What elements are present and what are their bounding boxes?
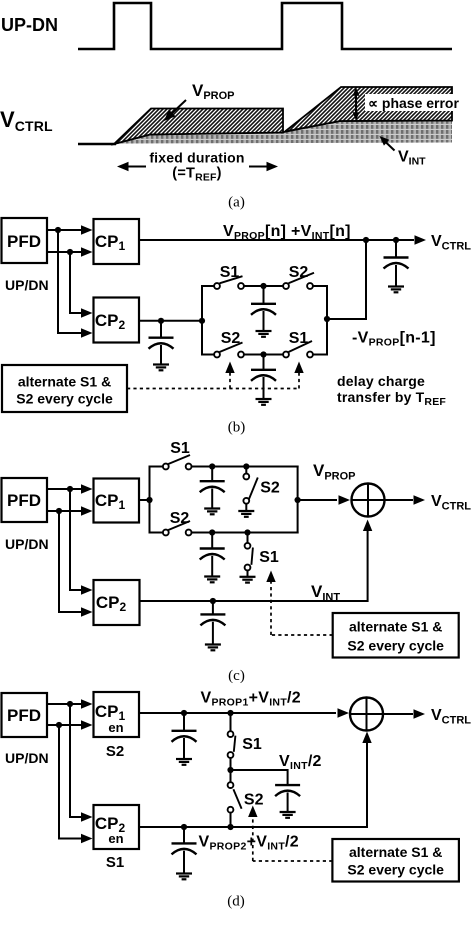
wire dashed control c [271, 581, 333, 635]
node junction top cap c [209, 463, 215, 469]
svg-text:(a): (a) [228, 195, 245, 211]
block alternate note d [332, 839, 459, 882]
arrow into summer bottom c [363, 520, 372, 532]
capacitor CP1 d [172, 713, 197, 759]
svg-text:en: en [108, 831, 123, 846]
node junction left rail c [146, 497, 152, 503]
capacitor CP2 d [172, 827, 197, 873]
svg-text:S1: S1 [259, 549, 279, 566]
arrow control d [248, 806, 257, 818]
svg-text:alternate S1 &: alternate S1 & [18, 374, 111, 390]
wire to CP2 lower input d [59, 725, 93, 843]
switch S1 bottom-right [283, 341, 313, 357]
node junction top wire c [67, 486, 73, 492]
wire top rail segments c [149, 466, 299, 468]
capacitor loop filter [384, 240, 409, 286]
ground CP2 cap [153, 365, 169, 371]
wire PFD to CP1 lower with arrow [47, 247, 93, 256]
svg-text:S1: S1 [289, 330, 309, 347]
node junction bottom cap c [209, 529, 215, 535]
svg-text:VPROP[n] +VINT[n]: VPROP[n] +VINT[n] [223, 223, 351, 242]
ground S1 vertical c [240, 577, 256, 583]
wire to CP2 upper input [70, 252, 93, 318]
wire summer output d [383, 709, 425, 718]
switch S2 vertical d [228, 770, 242, 827]
svg-text:S2 every cycle: S2 every cycle [347, 638, 444, 654]
capacitor CP2 integrator c [200, 601, 225, 644]
wire network to summer with arrow [298, 495, 350, 504]
capacitor CP2 integrator [149, 321, 174, 364]
block CP1 [94, 219, 140, 264]
svg-text:fixed duration: fixed duration [149, 150, 244, 166]
switch S1 top-left [214, 276, 244, 289]
svg-text:VPROP2+VINT/2: VPROP2+VINT/2 [199, 834, 300, 853]
UP-DN waveform [78, 3, 452, 49]
svg-text:∝ phase error: ∝ phase error [368, 95, 459, 111]
svg-text:(=TREF): (=TREF) [172, 166, 221, 184]
block alternate S1 S2 note [2, 365, 127, 412]
wire CP2 output [139, 320, 202, 322]
svg-text:CP2: CP2 [95, 311, 126, 332]
summer c [352, 484, 385, 517]
block CP1 en d [94, 692, 140, 737]
svg-text:S1: S1 [170, 440, 190, 457]
node junction top cap [260, 283, 266, 289]
node junction top wire [55, 227, 61, 233]
node junction S2 vertical c [243, 463, 249, 469]
wire right rail c [297, 466, 299, 534]
svg-text:S2: S2 [260, 480, 280, 497]
svg-text:transfer by TREF: transfer by TREF [337, 389, 446, 408]
arrow control S2 [225, 362, 234, 374]
svg-text:UP/DN: UP/DN [5, 277, 49, 293]
wire dashed control [127, 371, 299, 389]
wire PFD to CP1 lower d [47, 720, 93, 729]
wire left rail [201, 285, 203, 356]
node junction CP1 cap d [181, 710, 187, 716]
svg-text:CP1: CP1 [95, 232, 126, 253]
svg-text:S2: S2 [289, 264, 309, 281]
node VPROP shaded region cycle1 [114, 109, 283, 145]
block CP1 c [94, 479, 140, 523]
switch S2 top-right [283, 273, 314, 289]
svg-text:S1: S1 [106, 854, 124, 871]
node junction S2 bottom d [227, 824, 233, 830]
ground S2 vertical c [238, 511, 254, 517]
svg-text:S2 every cycle: S2 every cycle [16, 391, 113, 407]
ground top cap c [204, 509, 220, 515]
wire to CP2 lower input c [59, 511, 93, 617]
svg-text:VINT: VINT [311, 582, 340, 604]
svg-text:en: en [108, 720, 123, 735]
node junction cap [393, 237, 399, 243]
wire feedback vertical [327, 240, 366, 319]
svg-text:alternate S1 &: alternate S1 & [349, 619, 442, 635]
svg-text:VCTRL: VCTRL [0, 107, 53, 134]
wire top rail segments [201, 285, 328, 287]
switch S1 vertical c [245, 533, 253, 577]
node junction CP2 cap c [210, 598, 216, 604]
node junction S1 vertical c [244, 529, 250, 535]
capacitor sample top [251, 286, 276, 331]
node junction mid d [227, 767, 233, 773]
svg-text:VCTRL: VCTRL [431, 707, 471, 727]
wire to CP2 lower input [58, 230, 93, 338]
svg-text:S1: S1 [220, 264, 240, 281]
block PFD [2, 218, 48, 263]
svg-text:S1: S1 [242, 736, 262, 753]
label delay charge transfer [337, 373, 446, 408]
node junction bottom wire [67, 249, 73, 255]
arrow control S1 [294, 362, 303, 374]
wire to CP2 upper input d [70, 704, 93, 822]
ground top sample cap [256, 331, 272, 337]
svg-text:S2: S2 [170, 510, 190, 527]
switch S2 bottom-left [214, 343, 244, 358]
summer d [350, 698, 383, 731]
block PFD c [2, 478, 48, 522]
node junction left rail [199, 318, 205, 324]
svg-text:VINT: VINT [398, 149, 426, 168]
wire CP1 to network [139, 499, 150, 501]
label fixed duration with arrows [117, 150, 278, 184]
wire CP2 output c [140, 531, 368, 601]
capacitor top c [200, 467, 225, 509]
svg-text:CP2: CP2 [96, 593, 127, 614]
svg-text:S2: S2 [221, 330, 241, 347]
svg-text:PFD: PFD [7, 706, 41, 725]
svg-text:delay charge: delay charge [337, 373, 425, 389]
svg-text:VPROP: VPROP [192, 81, 235, 102]
label proportional to phase error [365, 94, 467, 111]
wire bottom rail segments c [149, 532, 299, 534]
capacitor VINT2 d [275, 785, 300, 811]
wire bottom rail segments [201, 354, 328, 356]
arrow into summer bottom d [362, 732, 371, 744]
switch S1 top c [163, 455, 192, 469]
svg-text:-VPROP[n-1]: -VPROP[n-1] [352, 330, 436, 349]
svg-text:CP1: CP1 [95, 491, 126, 512]
wire to CP2 upper input c [70, 489, 93, 595]
wire left rail c [149, 466, 151, 534]
block PFD d [2, 693, 48, 737]
svg-text:VCTRL: VCTRL [431, 493, 471, 513]
block alternate note c [333, 613, 459, 658]
svg-text:PFD: PFD [7, 491, 41, 510]
arrow control c [266, 571, 275, 583]
wire to VINT cap d [231, 770, 288, 785]
node junction bottom cap [260, 351, 266, 357]
node VINT shaded region [114, 121, 452, 145]
svg-text:(d): (d) [227, 894, 245, 910]
wire PFD to CP1 upper c [47, 484, 93, 493]
ground VINT2 cap d [280, 812, 296, 818]
svg-text:alternate S1 &: alternate S1 & [349, 844, 442, 860]
svg-text:UP/DN: UP/DN [5, 750, 49, 766]
ground CP2 cap c [205, 645, 221, 651]
ground CP1 cap d [176, 759, 192, 765]
wire CP2 output to summer d [139, 741, 367, 827]
label VPROP with arrow [161, 81, 235, 124]
node VPROP shaded region cycle2 [285, 87, 452, 132]
svg-text:VPROP: VPROP [313, 461, 356, 483]
svg-text:(c): (c) [228, 668, 245, 684]
wire PFD to CP1 lower c [47, 506, 93, 515]
capacitor sample bottom [251, 355, 276, 399]
node junction CP2 cap d [181, 824, 187, 830]
svg-text:VINT/2: VINT/2 [279, 753, 322, 772]
switch S2 vertical c [243, 467, 257, 511]
svg-text:S2: S2 [106, 743, 124, 760]
ground CP2 cap d [176, 874, 192, 880]
block CP2 en d [94, 805, 140, 849]
ground bottom cap c [204, 577, 220, 583]
svg-text:VCTRL: VCTRL [431, 233, 471, 253]
wire baseline VCTRL [78, 143, 116, 146]
node junction right rail c [295, 497, 301, 503]
svg-text:(b): (b) [228, 420, 246, 436]
svg-text:VPROP1+VINT/2: VPROP1+VINT/2 [201, 690, 302, 709]
svg-text:UP-DN: UP-DN [1, 15, 58, 35]
wire CP1 output to VCTRL [139, 235, 426, 244]
node junction switch chain top d [227, 710, 233, 716]
wire PFD to CP1 upper d [47, 699, 93, 708]
svg-text:S2: S2 [244, 792, 264, 809]
svg-text:UP/DN: UP/DN [5, 536, 49, 552]
phase error double arrow [353, 88, 360, 121]
wire summer output c [385, 495, 426, 504]
wire right rail [326, 285, 328, 356]
node junction feedback [363, 237, 369, 243]
block CP2 c [94, 580, 140, 625]
node junction bottom wire d [56, 722, 62, 728]
wire CP1 output to summer d [139, 708, 349, 717]
wire dashed control d [253, 815, 333, 861]
ground bottom sample cap [256, 399, 272, 405]
block CP2 [94, 298, 140, 343]
capacitor bottom c [200, 533, 225, 577]
svg-text:PFD: PFD [7, 232, 41, 251]
node junction CP2 cap [158, 318, 164, 324]
svg-text:S2 every cycle: S2 every cycle [347, 862, 444, 878]
switch S2 bottom c [163, 521, 192, 535]
node junction bottom wire c [56, 508, 62, 514]
switch S1 vertical d [228, 713, 236, 770]
wire PFD to CP1 upper with arrow [47, 225, 93, 234]
ground loop filter cap [388, 287, 404, 293]
node junction top wire d [67, 701, 73, 707]
node junction right rail [324, 316, 330, 322]
label VINT with arrow [377, 133, 426, 167]
